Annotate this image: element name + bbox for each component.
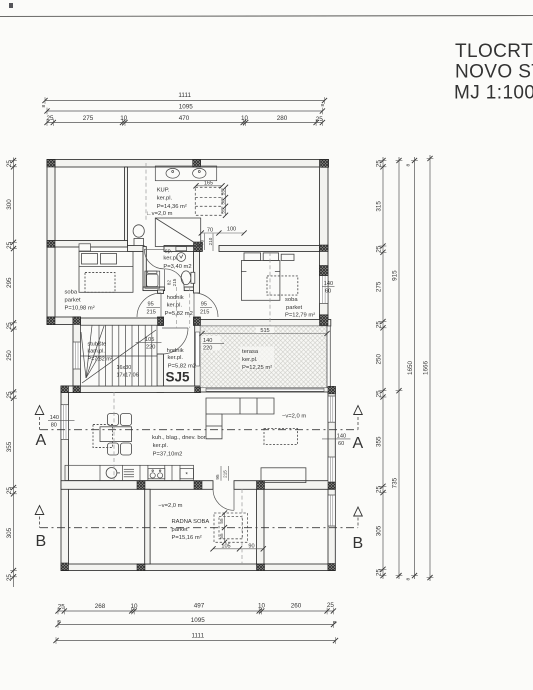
svg-text:−v=2,0 m: −v=2,0 m (282, 414, 306, 420)
svg-text:90: 90 (248, 544, 254, 550)
svg-text:−v=2,0 m: −v=2,0 m (158, 503, 182, 509)
radna soba skylight dims 55/55 (222, 510, 227, 545)
junction stair wall top (73, 317, 81, 325)
svg-text:215: 215 (223, 470, 228, 478)
svg-text:8: 8 (57, 620, 63, 623)
top chain 1111 (42, 92, 327, 104)
svg-text:P=5,82 m2: P=5,82 m2 (165, 311, 193, 317)
window hodnik/terasa wall door (195, 332, 199, 366)
svg-text:355: 355 (6, 441, 13, 452)
top chain 1095 (41, 104, 326, 115)
kup bathtub (155, 218, 200, 247)
svg-text:P=12,79 m²: P=12,79 m² (285, 313, 315, 319)
svg-text:stubište: stubište (88, 341, 107, 347)
window right-upper wall 140/60 (320, 276, 329, 304)
junction W8 bottom dark (195, 387, 201, 393)
window stairwell wall (73, 342, 81, 369)
kup door dim 70/100 (199, 230, 247, 251)
kitchen sink (106, 468, 120, 479)
svg-text:soba: soba (65, 290, 78, 296)
junction left-lower wall top (61, 386, 69, 393)
svg-text:P=15,16 m²: P=15,16 m² (172, 535, 202, 541)
svg-text:*: * (185, 472, 188, 479)
kup washbasin counter (155, 166, 216, 181)
interior wall W13 living/bottom-rooms right piece (234, 481, 335, 490)
svg-text:A: A (353, 435, 364, 452)
svg-text:25: 25 (316, 116, 324, 123)
svg-text:275: 275 (83, 115, 94, 122)
svg-text:25: 25 (376, 245, 383, 253)
radna soba skylight dashed (214, 513, 248, 542)
page top border line (0, 16, 533, 17)
svg-text:25: 25 (6, 391, 13, 399)
svg-text:P=5,82 m2: P=5,82 m2 (168, 363, 196, 369)
exterior wall left lower (61, 386, 69, 571)
svg-text:268: 268 (95, 603, 106, 610)
svg-text:100: 100 (227, 227, 236, 233)
junction W13 squares (137, 481, 145, 489)
svg-text:8: 8 (406, 164, 412, 167)
exterior wall bottom (61, 564, 335, 571)
room label radna soba (158, 503, 209, 541)
RIGHT CHAIN 2: 915/735 (392, 157, 403, 579)
terasa door dim 140/220 (202, 336, 221, 351)
interior wall W9 soba-left bottom / stair top (81, 318, 164, 325)
interior wall W14 bottom rooms 1 (145, 489, 150, 564)
svg-text:305: 305 (6, 527, 13, 538)
svg-text:sp.: sp. (165, 249, 173, 255)
soba-right bed (241, 261, 280, 301)
interior wall W8 hodnik / terasa (195, 325, 201, 392)
svg-text:kam.pl.: kam.pl. (88, 349, 105, 355)
svg-text:1111: 1111 (191, 633, 204, 640)
svg-text:hodnik: hodnik (167, 348, 184, 354)
sill block right-upper wall (320, 266, 329, 276)
window right-lower wall upper 140/60 (328, 396, 335, 422)
svg-text:RADNA SOBA: RADNA SOBA (172, 519, 210, 525)
interior wall W5 soba-left/hodnik upper piece (158, 290, 164, 294)
svg-text:70: 70 (207, 228, 213, 234)
dashed grid axes (114, 163, 270, 564)
window right-lower wall low (328, 495, 335, 526)
kitchen hob (148, 469, 165, 479)
svg-text:∟v=2,0 m: ∟v=2,0 m (146, 211, 173, 217)
dining rug dashed (93, 425, 113, 448)
sp cabinet (145, 271, 160, 288)
svg-text:1095: 1095 (179, 104, 194, 111)
svg-text:1650: 1650 (407, 361, 414, 376)
svg-text:10: 10 (241, 115, 249, 122)
interior wall W2c kup bottom (164, 246, 201, 252)
svg-text:515: 515 (260, 328, 269, 334)
door arc stair to hodnik 105 (162, 328, 188, 354)
svg-text:735: 735 (392, 477, 399, 488)
svg-text:260: 260 (291, 603, 302, 610)
svg-text:25: 25 (376, 160, 383, 168)
interior wall W10 soba-right bottom / terasa top (200, 320, 330, 327)
interior wall W4 sp bottom right piece (184, 287, 196, 291)
sp washing machine (176, 247, 187, 262)
svg-text:B: B (36, 533, 47, 550)
door arc soba-left 95 (137, 293, 161, 317)
svg-text:B: B (353, 535, 364, 552)
junction right wall / W2 (320, 245, 329, 252)
kitchen appliance box (180, 469, 194, 479)
interior wall W3 sp left (143, 247, 146, 291)
door arc sp to hodnik 82 (165, 269, 185, 289)
svg-text:8: 8 (320, 104, 326, 107)
room label soba left (65, 290, 95, 312)
kup shower dims 55/38/55 (223, 185, 228, 218)
bottom segment chain 25/268/10/497/10/260/25 (55, 602, 336, 614)
svg-text:55: 55 (219, 518, 224, 524)
svg-text:315: 315 (376, 201, 383, 212)
exterior wall right lower (328, 388, 335, 571)
svg-text:60: 60 (325, 288, 331, 294)
RIGHT CHAIN 3: 1650 (406, 157, 418, 581)
svg-text:ker.pl.: ker.pl. (168, 355, 184, 361)
svg-text:1666: 1666 (423, 361, 430, 376)
svg-text:terasa: terasa (242, 349, 259, 355)
svg-text:95: 95 (148, 302, 154, 308)
living L-sofa (206, 398, 274, 439)
kitchen drainer (124, 469, 134, 477)
interior wall W2d dividing right (219, 246, 320, 252)
svg-text:300: 300 (6, 199, 13, 210)
svg-text:parket: parket (65, 298, 82, 304)
svg-text:497: 497 (194, 603, 205, 610)
svg-text:P=10,98 m²: P=10,98 m² (65, 306, 95, 312)
exterior wall stub stair top (47, 317, 81, 325)
svg-text:38: 38 (221, 199, 226, 205)
door arc radna soba 95 (213, 489, 234, 510)
room label hodnik upper (165, 295, 193, 317)
soba-right pillows and shelf (244, 253, 294, 261)
svg-text:kuh., blag., dnev. bor.: kuh., blag., dnev. bor. (152, 435, 207, 441)
svg-text:P=37,10m2: P=37,10m2 (153, 452, 183, 458)
svg-text:280: 280 (277, 115, 288, 122)
svg-text:SJ5: SJ5 (166, 370, 191, 385)
soba-right rug dashed (267, 276, 298, 295)
interior wall W7 stair / hodnik lower (157, 354, 164, 393)
svg-text:NOVO STANJE: NOVO STANJE (455, 62, 533, 83)
svg-text:P=3,40 m2: P=3,40 m2 (163, 264, 191, 270)
svg-text:55: 55 (221, 208, 226, 214)
svg-text:25: 25 (6, 160, 13, 168)
interior wall W15 bottom rooms 2 (257, 489, 265, 564)
soba-left bed (79, 252, 133, 293)
sp toilet (181, 271, 195, 285)
top segment chain 25/275/10/470/10/280/25 (44, 115, 325, 126)
svg-text:ker.pl.: ker.pl. (157, 196, 173, 202)
svg-text:P=7,82 m²: P=7,82 m² (88, 356, 113, 362)
corner square top-left (47, 160, 55, 168)
svg-text:1111: 1111 (178, 92, 191, 99)
door arc soba-right 95 (194, 293, 218, 317)
svg-text:215: 215 (147, 310, 156, 316)
exterior wall right upper (320, 160, 329, 326)
kup shower dim 165 (193, 183, 224, 188)
svg-text:1095: 1095 (191, 617, 206, 624)
interior wall W13 living/bottom-rooms left piece (61, 481, 213, 490)
svg-text:82: 82 (166, 280, 171, 286)
bottom chain 1095 (55, 617, 338, 628)
svg-text:P=12,25 m²: P=12,25 m² (242, 365, 272, 371)
exterior wall top (47, 160, 329, 168)
svg-text:80: 80 (51, 423, 57, 429)
soba-left door dim 95/215 (147, 302, 156, 316)
junction left wall / W2 (47, 241, 55, 248)
terasa bottom wall W12 (200, 388, 331, 392)
svg-text:470: 470 (179, 115, 190, 122)
svg-text:ker.pl: ker.pl (163, 256, 177, 262)
svg-text:MJ 1:100: MJ 1:100 (454, 83, 533, 104)
junction stair wall bottom (73, 386, 81, 393)
svg-text:hodnik: hodnik (167, 295, 184, 301)
radna soba dims 105/90 (210, 546, 266, 551)
SECTION LINE A (35, 406, 363, 453)
bottom wall squares (137, 564, 145, 571)
svg-text:95: 95 (201, 302, 207, 308)
soba-right door dim 95/215 (200, 302, 209, 316)
svg-text:25: 25 (327, 602, 335, 609)
interior wall W11 living top (61, 386, 200, 393)
room label stubiste (88, 341, 139, 378)
svg-text:215: 215 (200, 310, 209, 316)
svg-text:10: 10 (130, 603, 138, 610)
junction terasa SE corner (328, 386, 336, 394)
junction left wall / W9 (47, 317, 55, 325)
dining chairs (108, 414, 132, 456)
window terasa bottom wall glazing (206, 388, 324, 391)
svg-text:25: 25 (6, 574, 13, 582)
svg-text:25: 25 (376, 390, 383, 398)
svg-text:105: 105 (145, 337, 154, 343)
svg-text:250: 250 (6, 350, 13, 361)
bottom chain 1111 (53, 633, 338, 644)
svg-text:25: 25 (376, 569, 383, 577)
svg-text:KUP.: KUP. (157, 188, 170, 194)
svg-text:16x30: 16x30 (117, 365, 132, 371)
interior wall W5 soba-left/hodnik lower piece (158, 317, 164, 325)
svg-text:ker.pl.: ker.pl. (153, 443, 169, 449)
svg-text:8: 8 (333, 621, 339, 624)
soba-left rug dashed (85, 273, 115, 293)
svg-text:60: 60 (338, 441, 344, 447)
window right-lower wall mid (328, 457, 335, 482)
title block text (454, 41, 533, 104)
corner square top-right (321, 160, 329, 168)
room label sp (163, 249, 191, 271)
dining table (100, 427, 132, 442)
kup toilet (133, 225, 144, 246)
room label soba right (285, 297, 315, 319)
svg-text:220: 220 (203, 346, 212, 352)
svg-text:25: 25 (6, 241, 13, 249)
chimney square top wall (193, 160, 201, 168)
window left wall 140/80 (61, 405, 69, 440)
svg-text:295: 295 (6, 277, 13, 288)
kup shower dashed (195, 187, 222, 215)
svg-text:25: 25 (6, 487, 13, 495)
svg-text:soba: soba (285, 297, 298, 303)
svg-text:915: 915 (392, 270, 399, 281)
exterior wall stub stair bottom (61, 386, 81, 393)
room label terasa (240, 347, 274, 371)
junction right wall / W10 (320, 315, 329, 326)
terasa hatched floor (200, 326, 327, 388)
kitchen counter (65, 465, 194, 480)
svg-text:275: 275 (376, 281, 383, 292)
svg-text:25: 25 (58, 604, 66, 611)
junction W5 dark (158, 318, 164, 326)
svg-text:ker.pl.: ker.pl. (242, 357, 258, 363)
svg-text:8: 8 (41, 105, 47, 108)
RIGHT DIMENSION CHAIN 1: 25/315/25/275/25/250/25/355/25/305/25 (376, 157, 387, 579)
svg-text:10: 10 (258, 603, 266, 610)
LEFT DIMENSION CHAIN 25/300/25/295/25/250/25/355/25/305/25 (6, 158, 17, 588)
svg-text:305: 305 (376, 525, 383, 536)
svg-text:250: 250 (376, 353, 383, 364)
SECTION LINE B (35, 506, 363, 552)
svg-text:140: 140 (203, 338, 212, 344)
terasa open edge right (327, 326, 330, 388)
living coffee table dashed (264, 429, 298, 445)
interior wall W4 sp bottom left piece (143, 287, 165, 291)
door arc kup to sp (144, 249, 164, 269)
interior wall W2b kup nook (128, 246, 145, 252)
svg-text:parket: parket (172, 527, 189, 533)
junction W6 dark (194, 318, 201, 326)
svg-text:355: 355 (376, 436, 383, 447)
svg-text:17x17,06: 17x17,06 (117, 372, 139, 378)
RIGHT CHAIN 4: 1666 (423, 155, 434, 581)
svg-text:220: 220 (146, 345, 155, 351)
corner square bottom-left (61, 563, 69, 570)
dark wall junction squares (47, 160, 336, 571)
svg-text:25: 25 (376, 321, 383, 329)
room label hodnik lower + SJ5 (166, 348, 197, 385)
exterior wall left upper (47, 160, 55, 325)
svg-text:25: 25 (46, 115, 54, 122)
svg-text:215: 215 (172, 278, 177, 286)
shaft square hodnik top (194, 242, 203, 252)
svg-text:105: 105 (221, 544, 230, 550)
room label kup (146, 188, 187, 217)
interior wall W2a soba-left top (47, 241, 128, 248)
svg-text:TLOCRT: TLOCRT (455, 41, 533, 62)
svg-text:55: 55 (221, 190, 226, 196)
interior wall W1 top-left room / kup (125, 167, 128, 247)
svg-text:25: 25 (6, 322, 13, 330)
stairs (81, 325, 158, 386)
soba-left niche (79, 244, 91, 251)
svg-text:95: 95 (215, 474, 220, 480)
svg-text:165: 165 (204, 181, 213, 187)
svg-text:P=14,36 m²: P=14,36 m² (157, 204, 187, 210)
svg-text:8: 8 (406, 578, 412, 581)
room label kuhinja/dnevni (152, 435, 207, 457)
terasa dim 515 (199, 331, 329, 336)
svg-text:A: A (36, 432, 47, 449)
interior wall W6 hodnik/soba-right lower piece (194, 317, 201, 325)
exterior wall stairwell left (73, 317, 81, 393)
page corner mark (9, 3, 13, 8)
svg-text:140: 140 (50, 415, 59, 421)
svg-text:55: 55 (219, 533, 224, 539)
svg-text:70: 70 (200, 240, 205, 246)
svg-text:10: 10 (120, 115, 128, 122)
svg-text:25: 25 (376, 486, 383, 494)
svg-text:ker.pl.: ker.pl. (167, 302, 183, 308)
svg-text:parket: parket (286, 305, 303, 311)
interior wall W6 hodnik/soba-right upper piece (194, 252, 200, 294)
svg-text:210: 210 (208, 237, 213, 245)
living sofa2 (261, 468, 306, 483)
